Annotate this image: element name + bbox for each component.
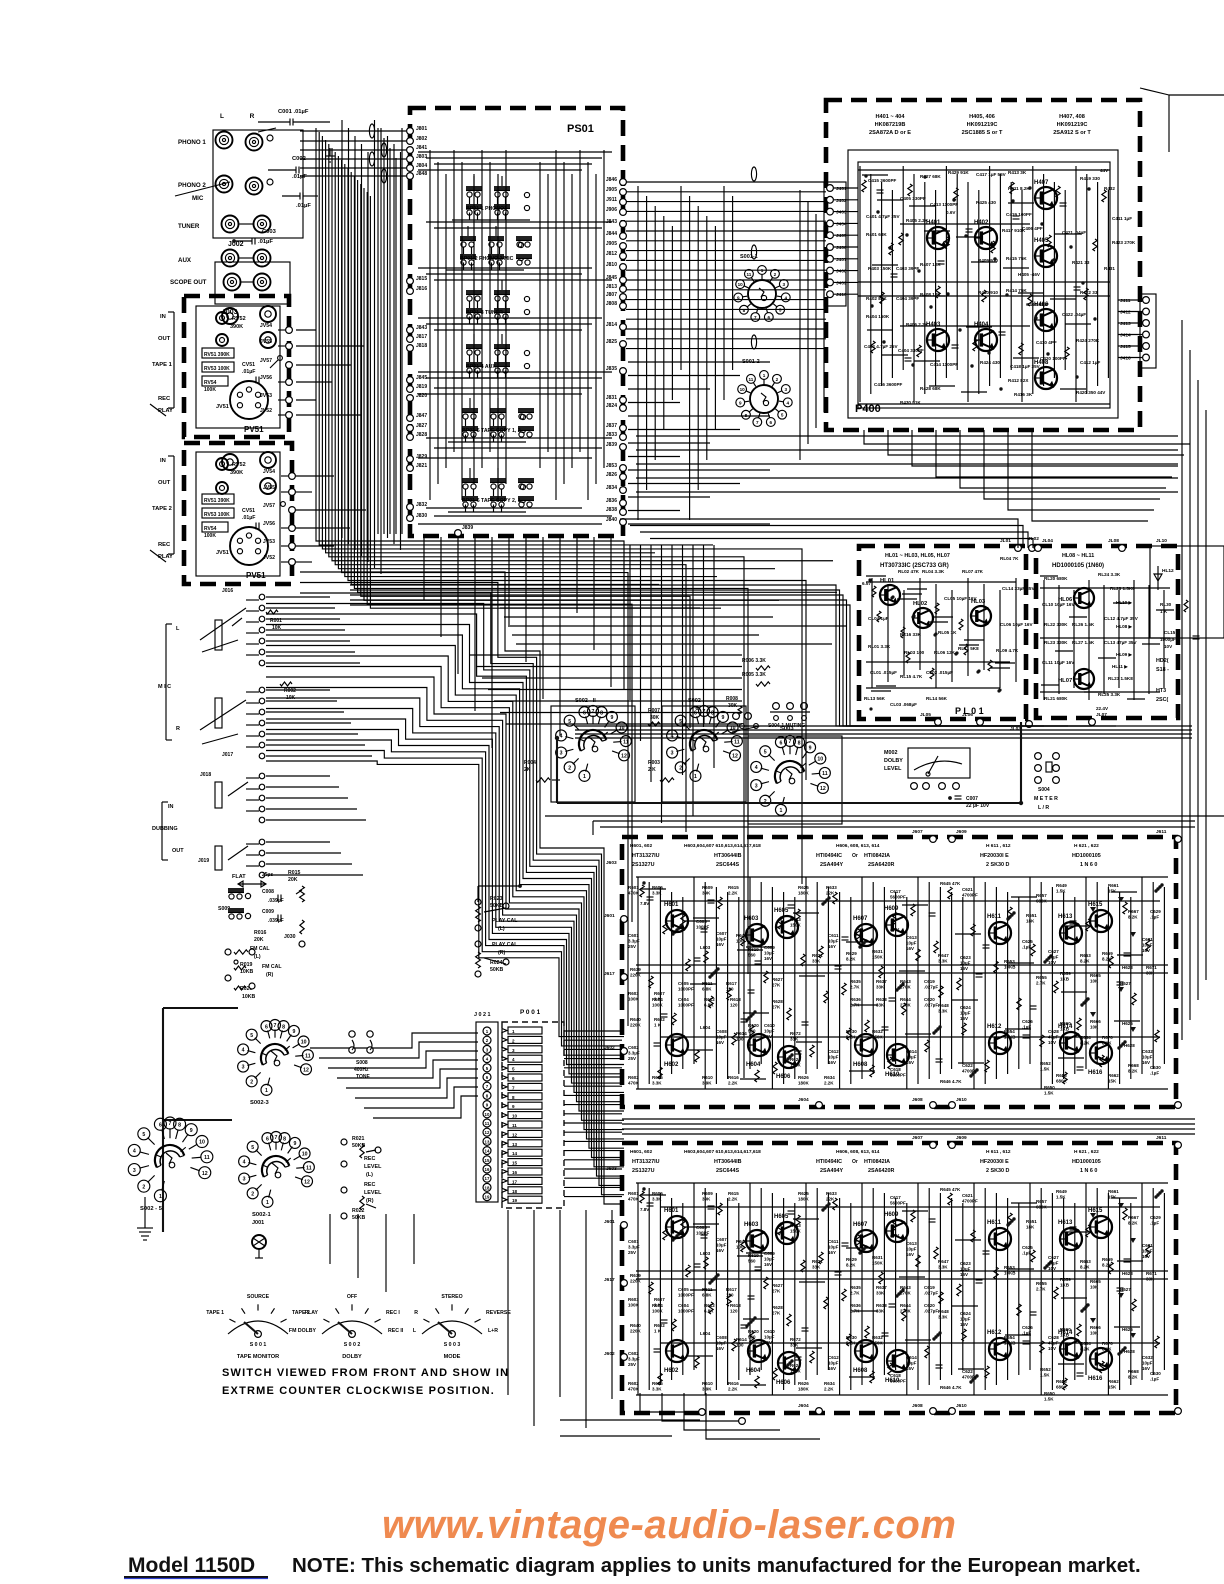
svg-text:17: 17 (512, 1179, 518, 1184)
svg-text:R627: R627 (772, 1283, 783, 1288)
svg-text:PV51: PV51 (246, 571, 266, 580)
svg-text:CV51: CV51 (242, 508, 255, 514)
terminal J408 (827, 267, 858, 274)
svg-text:RL23 330K: RL23 330K (1044, 640, 1068, 645)
label P001 (520, 1009, 541, 1016)
label R405 2.2K (906, 218, 929, 223)
svg-text:R402 82K: R402 82K (866, 296, 887, 301)
svg-text:R638: R638 (876, 1303, 887, 1308)
svg-text:R612: R612 (704, 1303, 715, 1308)
transistor H605 lower (774, 1214, 798, 1244)
svg-text:R619: R619 (748, 947, 759, 952)
svg-text:H627: H627 (1120, 1287, 1131, 1292)
svg-text:16V: 16V (716, 1040, 724, 1045)
svg-text:R611: R611 (702, 1287, 713, 1292)
svg-text:C613: C613 (906, 935, 917, 940)
svg-text:12: 12 (485, 1130, 490, 1135)
svg-text:16V: 16V (764, 956, 772, 961)
svg-text:(L): (L) (254, 954, 261, 960)
svg-text:H 621 , 622: H 621 , 622 (1074, 1149, 1099, 1155)
svg-text:C604: C604 (678, 997, 689, 1002)
svg-text:R427 68K: R427 68K (920, 174, 941, 179)
svg-text:10V: 10V (1048, 1346, 1056, 1351)
svg-text:7: 7 (789, 739, 792, 745)
svg-text:10: 10 (199, 1140, 205, 1146)
svg-text:8.2K: 8.2K (1128, 914, 1138, 919)
svg-text:FM DOLBY: FM DOLBY (289, 1328, 317, 1334)
terminal JV56 tape1 (260, 375, 293, 385)
svg-text:J843: J843 (416, 325, 427, 331)
svg-text:.027µF: .027µF (924, 984, 938, 989)
svg-text:R630: R630 (846, 1029, 857, 1034)
svg-text:1.5K: 1.5K (1056, 888, 1066, 893)
label CL03 .068uF (890, 702, 917, 707)
svg-text:R662: R662 (1108, 1073, 1119, 1078)
model label (124, 1554, 268, 1579)
terminal J021-14 (483, 1147, 491, 1155)
svg-text:1.5K: 1.5K (1044, 1396, 1054, 1401)
svg-text:J818: J818 (416, 343, 427, 349)
svg-text:R416 3K: R416 3K (1014, 392, 1033, 397)
transistor H603 lower (744, 1222, 768, 1252)
svg-text:R623: R623 (790, 1223, 801, 1228)
svg-text:.01µF: .01µF (242, 515, 255, 521)
svg-text:C630: C630 (1150, 1065, 1161, 1070)
svg-text:11: 11 (306, 1165, 312, 1171)
svg-text:C620: C620 (924, 1303, 935, 1308)
meter M002 DOLBY LEVEL (884, 748, 970, 778)
svg-text:R616: R616 (728, 1381, 739, 1386)
svg-text:R645 47K: R645 47K (940, 1187, 961, 1192)
svg-text:5600PF: 5600PF (890, 1200, 906, 1205)
phono1 jack L (216, 132, 233, 149)
svg-text:16: 16 (485, 1167, 490, 1172)
rotary switch S001-1 (734, 254, 790, 321)
jack circle tape1 b (260, 306, 276, 322)
svg-text:R602: R602 (628, 1075, 639, 1080)
svg-text:R614: R614 (736, 1031, 747, 1036)
terminal J412 (1118, 308, 1149, 315)
svg-text:C605: C605 (678, 1287, 689, 1292)
svg-text:2 SK30 D: 2 SK30 D (986, 1168, 1009, 1174)
FM CAL L (225, 946, 270, 960)
svg-text:H609: H609 (884, 1212, 899, 1218)
svg-text:3.3µF: 3.3µF (628, 1244, 640, 1249)
svg-text:L603: L603 (700, 1251, 711, 1256)
svg-text:J408: J408 (836, 269, 847, 275)
svg-text:R410 910: R410 910 (978, 290, 998, 295)
svg-text:.1µF: .1µF (1022, 1024, 1031, 1029)
svg-text:C628: C628 (1048, 1029, 1059, 1034)
svg-text:10K: 10K (1090, 978, 1099, 983)
svg-text:10KB: 10KB (1004, 1034, 1016, 1039)
svg-text:14: 14 (485, 1149, 490, 1154)
svg-text:10KB: 10KB (242, 994, 256, 1000)
wire below P400 horizontals (636, 436, 1178, 492)
svg-text:J409: J409 (836, 280, 847, 286)
svg-text:27K: 27K (772, 982, 781, 987)
svg-text:C622: C622 (962, 1369, 973, 1374)
terminal JL06 (962, 712, 983, 725)
svg-text:R660: R660 (1060, 1021, 1071, 1026)
svg-text:9: 9 (721, 715, 724, 721)
svg-text:R615: R615 (728, 885, 739, 890)
svg-text:R660: R660 (1060, 1327, 1071, 1332)
wire mid lower horizontals (628, 362, 770, 524)
label RL16 33K (900, 632, 922, 637)
capacitor C002 .01uF (268, 156, 307, 180)
terminal J406 (827, 244, 858, 251)
svg-text:10V: 10V (1048, 960, 1056, 965)
svg-text:R621: R621 (812, 1259, 823, 1264)
svg-text:R617: R617 (726, 981, 737, 986)
svg-text:IN: IN (160, 458, 166, 464)
svg-text:H613: H613 (1058, 1220, 1073, 1226)
svg-text:33K: 33K (812, 958, 821, 963)
resistor R007 30K (648, 708, 660, 726)
svg-text:1: 1 (694, 774, 697, 780)
svg-text:.039µF: .039µF (268, 898, 284, 904)
label RL04 7K (1000, 556, 1019, 561)
wire amp1 outer boundary (545, 816, 1224, 835)
svg-text:12: 12 (621, 753, 627, 759)
terminal J608 lower (912, 1403, 936, 1414)
label PLAY CAL R (475, 941, 518, 956)
PL01 header (880, 553, 950, 569)
PL01 wires (866, 578, 1016, 688)
svg-text:1000PF: 1000PF (678, 986, 694, 991)
P001 pin 1 (502, 1027, 542, 1034)
terminal J804 PS01-left (407, 163, 428, 171)
J401 strip box (824, 182, 846, 306)
svg-text:R668: R668 (1128, 1369, 1139, 1374)
svg-text:R616: R616 (728, 1075, 739, 1080)
svg-text:J827: J827 (416, 423, 427, 429)
svg-text:.01µF: .01µF (258, 239, 273, 245)
svg-text:3.3µF: 3.3µF (628, 1050, 640, 1055)
switch S004-1 MUTING (768, 703, 810, 729)
label R419 330 (1080, 176, 1100, 181)
label AUX (178, 257, 192, 264)
svg-text:C610: C610 (764, 1023, 775, 1028)
label R424 270K (1076, 338, 1100, 343)
svg-text:C410 4PF: C410 4PF (1036, 340, 1057, 345)
svg-text:100PF: 100PF (696, 1230, 710, 1235)
wire right edge verticals (1182, 320, 1206, 1040)
svg-text:11: 11 (512, 1123, 517, 1128)
terminal J826 PS01-right (606, 472, 627, 480)
terminal J830 PS01-left (407, 513, 428, 521)
terminal J834 PS01-right (606, 485, 627, 493)
svg-text:R624: R624 (790, 1363, 801, 1368)
svg-text:CL01 .015µF: CL01 .015µF (870, 670, 897, 675)
phono1 jack R (246, 128, 277, 151)
svg-text:J815: J815 (416, 276, 427, 282)
svg-text:150K: 150K (790, 1228, 802, 1233)
svg-text:R629: R629 (846, 1257, 857, 1262)
scope jack R (240, 274, 271, 291)
svg-text:5: 5 (512, 1067, 515, 1072)
svg-text:JL05: JL05 (920, 712, 931, 718)
svg-text:2: 2 (251, 1192, 254, 1198)
svg-text:R647: R647 (938, 1259, 949, 1264)
amp block upper dashed box (622, 837, 1176, 1107)
terminal J617 lower (604, 1277, 627, 1286)
svg-text:H608: H608 (853, 1062, 868, 1068)
transistor H609 upper (884, 906, 908, 936)
svg-text:14: 14 (512, 1151, 518, 1156)
svg-text:100: 100 (736, 938, 744, 943)
aux jack R (238, 250, 271, 267)
terminal J818 PS01-left (407, 343, 428, 351)
svg-text:R603: R603 (628, 991, 639, 996)
svg-text:RL13 56K: RL13 56K (864, 696, 886, 701)
terminal J602 upper (604, 1045, 627, 1054)
resistor R001 10K (266, 610, 282, 631)
svg-text:CL06 10µF 16V: CL06 10µF 16V (1000, 622, 1033, 627)
resistor R004 2K (524, 760, 560, 782)
svg-text:R429 91K: R429 91K (948, 170, 969, 175)
svg-text:DUBBING: DUBBING (152, 826, 178, 832)
svg-text:R411 8.2K: R411 8.2K (1008, 186, 1030, 191)
svg-text:33K: 33K (1146, 1276, 1155, 1281)
svg-text:R605: R605 (652, 1191, 663, 1196)
switch module BP01-2 PHONO2/MIC (446, 226, 532, 270)
svg-text:J837: J837 (606, 423, 617, 429)
svg-text:REC I: REC I (386, 1310, 400, 1316)
svg-text:C625: C625 (1022, 1245, 1033, 1250)
svg-text:J617: J617 (604, 1277, 615, 1283)
P001 pin 12 (502, 1130, 542, 1137)
svg-text:5: 5 (764, 749, 767, 755)
svg-text:0.6V: 0.6V (946, 210, 956, 215)
P400 header H401-404 (869, 114, 911, 136)
svg-text:R612: R612 (704, 997, 715, 1002)
resistor RV54 100K tape2 (202, 522, 228, 539)
svg-text:P 0 0 1: P 0 0 1 (520, 1009, 541, 1016)
svg-text:J611: J611 (1156, 1135, 1167, 1141)
svg-text:R661: R661 (1108, 883, 1119, 888)
svg-text:12: 12 (512, 1132, 518, 1137)
svg-text:1KB: 1KB (1060, 976, 1070, 981)
label R432 (1104, 186, 1115, 191)
terminal J607 lower (912, 1135, 936, 1148)
ferrite bead mid b (751, 245, 756, 259)
svg-text:9: 9 (512, 1104, 515, 1109)
jack circle tape2 c (260, 478, 276, 494)
svg-text:IN: IN (160, 314, 166, 320)
amp wire stubs upper (640, 889, 1143, 1079)
svg-text:1 N 6 0: 1 N 6 0 (1080, 1168, 1097, 1174)
transistor H407 (1034, 180, 1057, 209)
svg-text:4: 4 (755, 765, 758, 771)
transistor H602 lower (664, 1340, 688, 1374)
svg-text:2: 2 (774, 272, 777, 277)
svg-text:220K: 220K (630, 1278, 642, 1283)
transistor HL01 (880, 578, 900, 605)
svg-text:J816: J816 (416, 286, 427, 292)
P001 pin 7 (502, 1083, 542, 1090)
transistor H609 lower (884, 1212, 908, 1242)
svg-text:H616: H616 (1088, 1376, 1103, 1382)
svg-text:C617: C617 (890, 1195, 901, 1200)
transistor H608 lower (853, 1340, 877, 1374)
transistor H604 upper (746, 1034, 770, 1068)
PL01 extra wires (866, 576, 1015, 711)
label HL09 diode (1116, 652, 1134, 657)
label PL01 (955, 706, 984, 716)
svg-text:2SC644S: 2SC644S (716, 862, 739, 868)
svg-text:9: 9 (190, 1128, 193, 1134)
label R409 910 (978, 258, 998, 263)
svg-text:C627: C627 (1048, 949, 1059, 954)
label C412 1uF (1080, 360, 1100, 365)
svg-text:560: 560 (748, 1258, 756, 1263)
svg-text:NOTE: This schematic diagram: NOTE: This schematic diagram applies to … (292, 1554, 1141, 1577)
svg-text:1.5K: 1.5K (1044, 1090, 1054, 1095)
wire main staircase bundle (266, 572, 624, 1204)
svg-text:16V: 16V (716, 1248, 724, 1253)
svg-text:R665: R665 (1090, 1279, 1101, 1284)
svg-text:18K: 18K (1026, 1224, 1035, 1229)
svg-text:L: L (220, 113, 224, 120)
svg-text:47µF: 47µF (1048, 1034, 1059, 1039)
svg-text:2 K: 2 K (648, 767, 656, 773)
terminal J609 upper (949, 829, 967, 842)
svg-text:10µF: 10µF (716, 1340, 727, 1345)
amp vertical wires upper (638, 877, 1164, 1089)
svg-text:2.2K: 2.2K (728, 1080, 738, 1085)
svg-text:2SC1885 S or T: 2SC1885 S or T (962, 130, 1003, 136)
label CL13 47uF 35V (1104, 640, 1137, 645)
svg-text:R646 4.7K: R646 4.7K (940, 1079, 962, 1084)
svg-text:J804: J804 (416, 163, 427, 169)
svg-text:10KB: 10KB (1004, 964, 1016, 969)
amp block lower dashed box (622, 1143, 1176, 1413)
svg-text:10µF: 10µF (764, 1028, 775, 1033)
svg-text:R423 270K: R423 270K (1112, 240, 1136, 245)
svg-text:J814: J814 (606, 322, 617, 328)
svg-text:JV51: JV51 (216, 404, 229, 410)
svg-text:RL04 7K: RL04 7K (1000, 556, 1019, 561)
svg-text:5: 5 (781, 413, 784, 418)
svg-text:C403 39PF: C403 39PF (896, 266, 919, 271)
label R427 68K (920, 174, 941, 179)
switch S009 (218, 888, 244, 919)
tuner jack L (222, 216, 239, 233)
svg-text:8: 8 (600, 710, 603, 716)
svg-text:8: 8 (283, 1136, 286, 1142)
label RL06 12K (934, 650, 956, 655)
svg-text:1: 1 (761, 268, 764, 273)
svg-text:PHONO 2: PHONO 2 (178, 182, 206, 189)
svg-text:10µF: 10µF (906, 1054, 917, 1059)
svg-text:BP01-4 AUX: BP01-4 AUX (466, 364, 496, 370)
svg-text:HF20030I E: HF20030I E (980, 1159, 1009, 1165)
svg-text:J018: J018 (200, 772, 211, 778)
svg-text:100: 100 (736, 1244, 744, 1249)
svg-text:16V: 16V (1142, 1060, 1150, 1065)
svg-text:R419 330: R419 330 (1080, 176, 1100, 181)
svg-text:L+R: L+R (488, 1328, 498, 1334)
svg-text:J846: J846 (606, 177, 617, 183)
svg-text:J853: J853 (606, 463, 617, 469)
phono2 jack R (246, 178, 274, 195)
svg-text:R626: R626 (798, 1381, 809, 1386)
jack circle tape2 a (222, 454, 238, 470)
svg-text:11: 11 (748, 377, 753, 382)
svg-text:R655: R655 (1036, 975, 1047, 980)
svg-text:R671: R671 (1146, 965, 1157, 970)
svg-text:TONE: TONE (356, 1074, 370, 1080)
svg-text:33K: 33K (790, 1342, 799, 1347)
svg-text:10µF: 10µF (716, 1034, 727, 1039)
svg-text:.1µF: .1µF (1150, 1376, 1159, 1381)
svg-text:HTI0494IC: HTI0494IC (816, 853, 842, 859)
svg-text:R653: R653 (1004, 1265, 1015, 1270)
P400 vertical wires (860, 166, 1108, 402)
svg-text:P400: P400 (855, 403, 881, 415)
svg-text:.01µF: .01µF (296, 203, 311, 209)
svg-text:3.3K: 3.3K (938, 958, 948, 963)
terminal J416 (1118, 354, 1149, 361)
terminal J403 (827, 208, 858, 215)
svg-text:H615: H615 (1088, 1208, 1103, 1214)
terminal J807 PS01-right (606, 292, 627, 300)
svg-text:100K: 100K (628, 1302, 640, 1307)
svg-text:J817: J817 (416, 334, 427, 340)
svg-text:15: 15 (485, 1158, 490, 1163)
resistor RV53 100K tape1 (202, 362, 234, 372)
label RL14 56K (926, 696, 948, 701)
svg-text:8.2K: 8.2K (1102, 1262, 1112, 1267)
svg-text:16Y: 16Y (828, 944, 836, 949)
S002-II enclosure box (551, 706, 635, 802)
label RL03 100 (904, 650, 925, 655)
label C422 .04uF (1062, 312, 1086, 317)
svg-text:J402: J402 (836, 198, 847, 204)
svg-text:J840: J840 (606, 517, 617, 523)
svg-text:RL21 680K: RL21 680K (1044, 696, 1068, 701)
svg-text:.1µF: .1µF (1022, 1330, 1031, 1335)
label RL25 3.3K (1098, 692, 1121, 697)
terminal J401 (827, 185, 858, 192)
svg-text:J802: J802 (416, 136, 427, 142)
svg-text:J002: J002 (228, 241, 244, 248)
svg-text:R670: R670 (1102, 1035, 1113, 1040)
svg-text:10µF: 10µF (960, 1316, 971, 1321)
svg-text:Model 1150D: Model 1150D (128, 1554, 255, 1577)
svg-text:R425 430: R425 430 (976, 200, 996, 205)
svg-text:15: 15 (512, 1161, 518, 1166)
terminal J829 PS01-left (407, 454, 428, 462)
svg-text:8: 8 (282, 1024, 285, 1030)
potentiometer R024 50KB (475, 952, 509, 977)
label HL08 diode (1116, 624, 1134, 629)
label 44V (1100, 168, 1109, 173)
label C401 4.7uF 25V (866, 214, 900, 219)
svg-text:R666: R666 (1090, 1019, 1101, 1024)
svg-text:J016: J016 (222, 588, 233, 594)
wire thick meter bus (555, 722, 1023, 805)
svg-text:390K: 390K (230, 324, 243, 330)
svg-text:R602: R602 (654, 1323, 665, 1328)
svg-text:BP01-6 TAPE COPY 2, 1: BP01-6 TAPE COPY 2, 1 (462, 498, 521, 504)
svg-text:11: 11 (485, 1121, 490, 1126)
label 6.57 (862, 581, 871, 586)
terminal J836 PS01-right (606, 498, 627, 506)
svg-text:H613: H613 (1058, 914, 1073, 920)
